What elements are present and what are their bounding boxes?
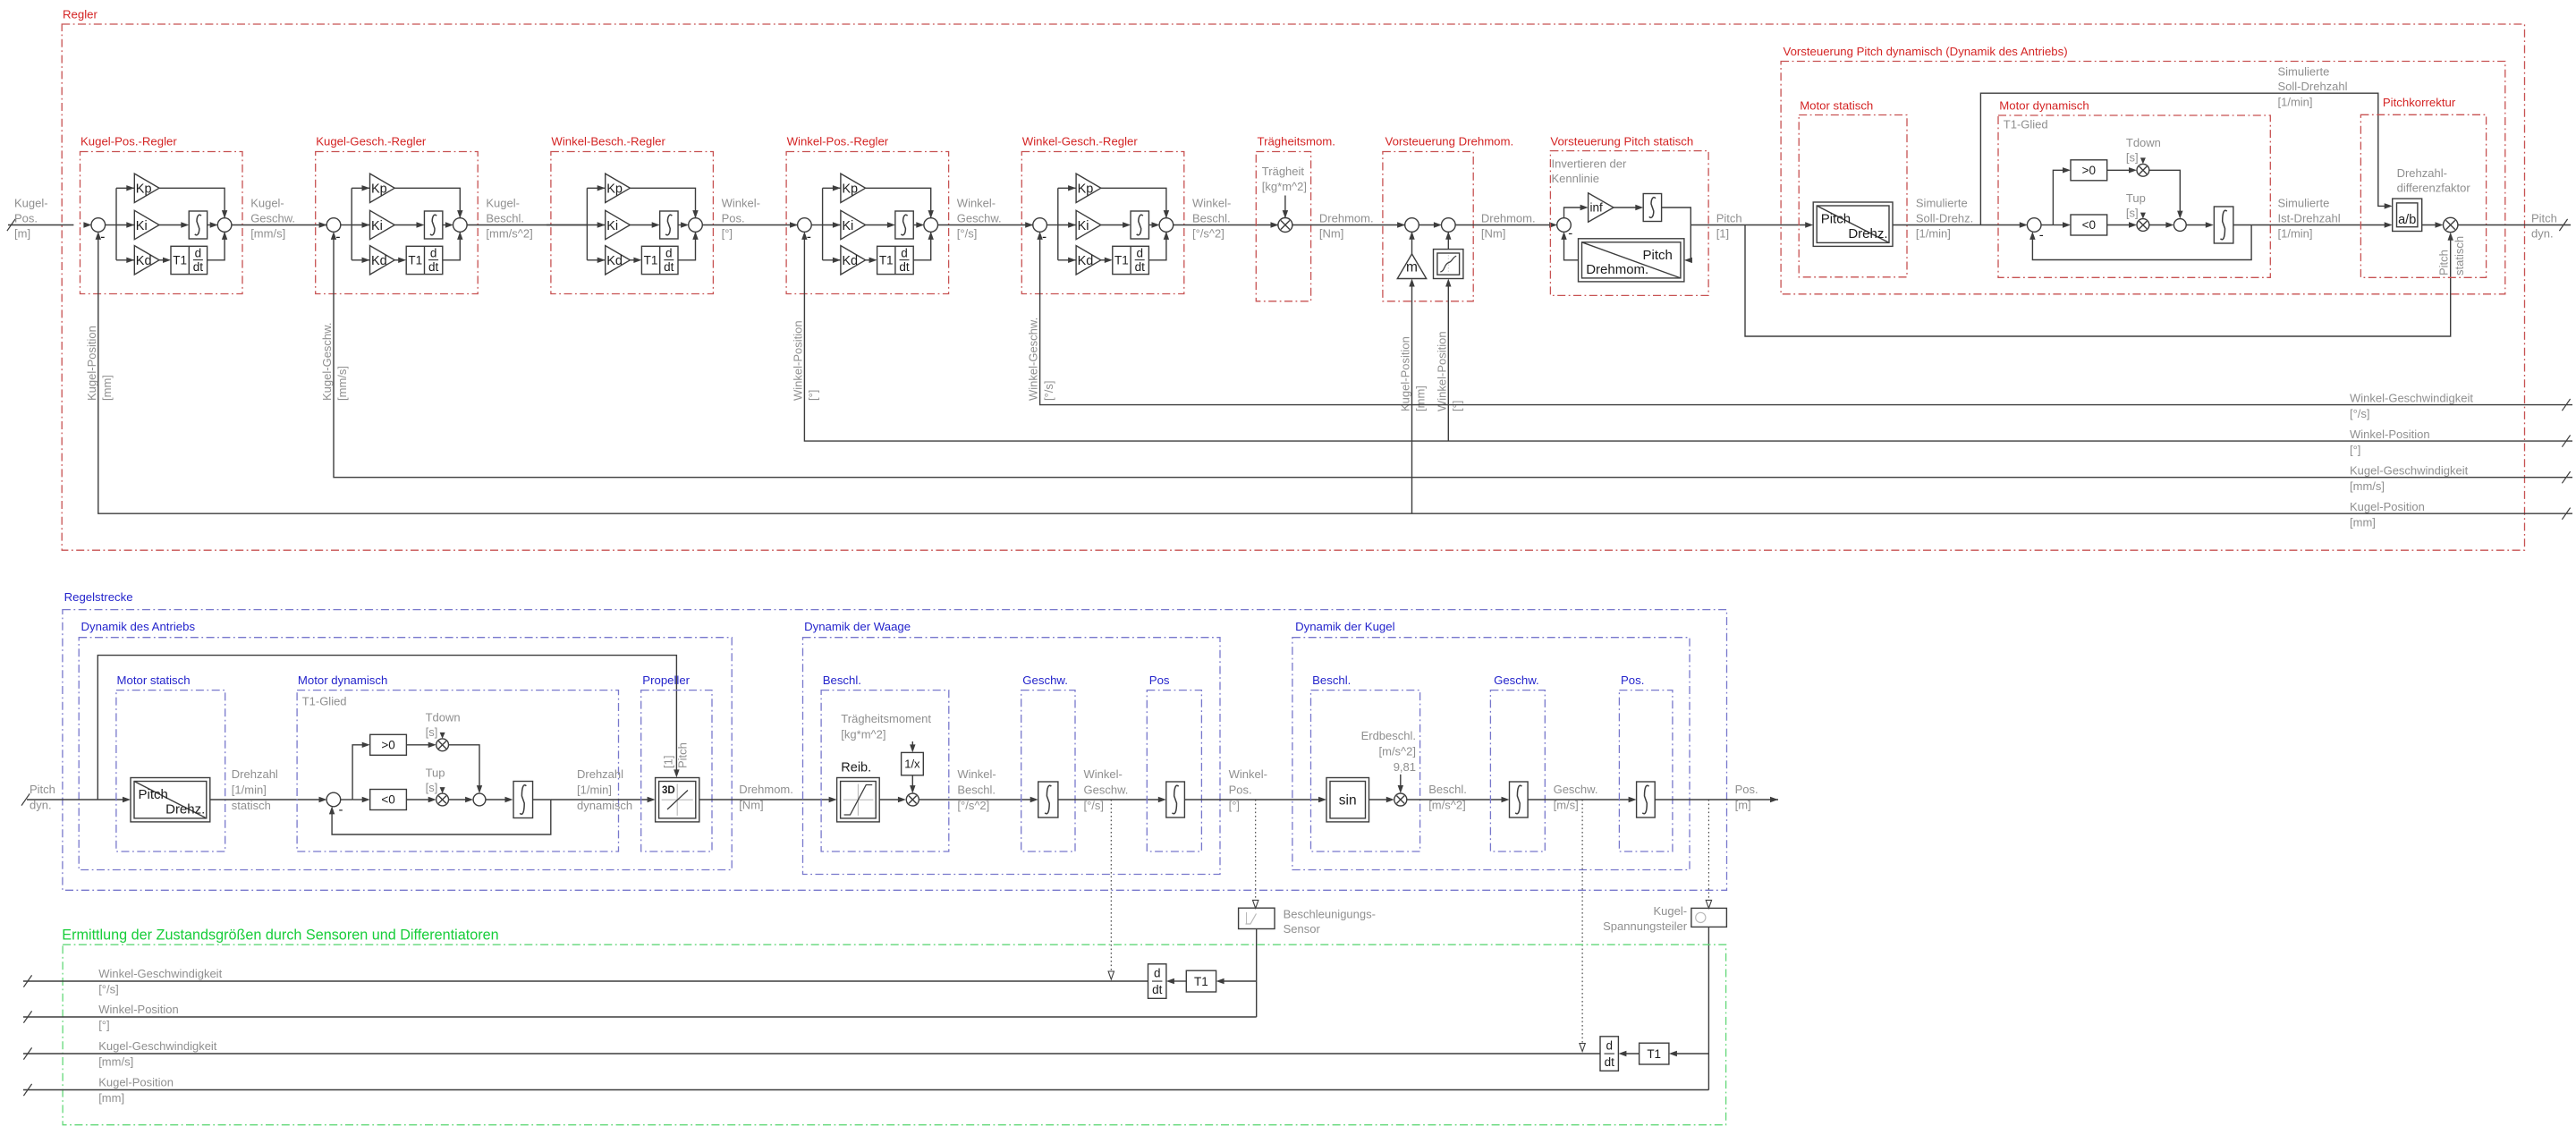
svg-text:Kugel-Geschwindigkeit: Kugel-Geschwindigkeit <box>2350 464 2469 478</box>
svg-text:[1]: [1] <box>1716 227 1729 241</box>
svg-text:[1/min]: [1/min] <box>232 783 267 797</box>
svg-text:-: - <box>335 229 340 244</box>
svg-text:Ki: Ki <box>606 219 618 233</box>
svg-text:Motor dynamisch: Motor dynamisch <box>1999 98 2089 112</box>
T1-Glied block >0 <box>2071 160 2107 181</box>
svg-text:Pitch: Pitch <box>2437 250 2451 275</box>
Winkel-Gesch.-Regler: output sum junction <box>1159 218 1174 233</box>
wire multiplier to Kugel Geschw. integrator <box>1407 799 1503 800</box>
svg-text:9,81: 9,81 <box>1394 760 1416 774</box>
svg-text:T1: T1 <box>408 254 422 267</box>
svg-text:Geschw.: Geschw. <box>1084 783 1129 797</box>
svg-text:Winkel-Pos.-Regler: Winkel-Pos.-Regler <box>787 134 889 148</box>
T1-Glied wire to block <0 <box>2053 224 2063 226</box>
multiplier Traegheitsmoment <box>1278 218 1292 233</box>
svg-text:Winkel-: Winkel- <box>957 197 996 210</box>
svg-text:Geschw.: Geschw. <box>1494 673 1539 687</box>
feedback wire Kugel-Geschwindigkeit [mm/s] <box>334 238 2572 477</box>
Winkel-Gesch.-Regler: derivative block T1 d/dt <box>1101 259 1106 261</box>
Winkel-Besch.-Regler: integrator <box>630 224 653 226</box>
svg-text:T1: T1 <box>879 254 894 267</box>
Winkel-Besch.-Regler: branch wires <box>586 188 588 259</box>
svg-text:sin: sin <box>1339 793 1357 809</box>
state wire Kugel-Position [mm] <box>23 1089 1708 1091</box>
svg-text:d: d <box>1606 1038 1613 1052</box>
wire Tup to multiplier <box>440 787 445 793</box>
multiplier Waage Beschl. <box>906 793 919 806</box>
dotted measurement tap Winkel-Position <box>1255 800 1257 901</box>
svg-text:[1/min]: [1/min] <box>577 783 612 797</box>
Ermittlung der Zustandsgroessen dashed box <box>63 944 1726 1125</box>
wire merge sum to integrator <box>2186 224 2207 226</box>
svg-text:[°/s]: [°/s] <box>1084 799 1105 812</box>
Kugel-Gesch.-Regler: wire Kp to output sum <box>394 188 460 218</box>
output wire Pos. [m] <box>1655 799 1778 800</box>
wire Propeller to Dynamik der Waage <box>699 799 830 800</box>
svg-text:[mm/s]: [mm/s] <box>98 1055 133 1069</box>
svg-text:Motor dynamisch: Motor dynamisch <box>298 673 387 687</box>
svg-text:-: - <box>807 229 811 244</box>
Winkel-Pos.-Regler: gain Ki <box>823 224 841 226</box>
wire integrator to output and Pitch node <box>1662 208 1691 260</box>
T1-Glied integrator <box>2214 207 2233 243</box>
T1-Glied multiplier Tdown <box>436 739 449 751</box>
Kugel-Gesch.-Regler: gain Ki <box>352 224 369 226</box>
sum junction inversion loop <box>1557 218 1572 233</box>
Winkel-Pos.-Regler: integrator <box>866 224 889 226</box>
svg-text:Kugel-Geschw.: Kugel-Geschw. <box>320 323 334 401</box>
svg-text:T1: T1 <box>1647 1047 1661 1061</box>
dotted measurement tap Kugel-Geschwindigkeit <box>1581 800 1583 1044</box>
Kugel-Gesch.-Regler: gain Kd <box>362 258 370 263</box>
wire Motor statisch to Motor dynamisch (Strecke) <box>210 799 320 800</box>
Kugel-Pos.-Regler: gain Ki <box>116 224 134 226</box>
multiplier Pitchkorrektur <box>2444 217 2458 232</box>
svg-text:[mm]: [mm] <box>100 375 114 401</box>
Winkel-Gesch.-Regler: integrator <box>1101 224 1124 226</box>
wire Tup to multiplier <box>2140 213 2146 219</box>
Winkel-Besch.-Regler: gain Ki <box>587 224 605 226</box>
integrator inversion loop <box>1643 194 1661 222</box>
Winkel-Pos.-Regler: gain Kd <box>833 258 841 263</box>
Regler outer dashed box <box>62 24 2524 550</box>
svg-text:3D: 3D <box>662 785 675 796</box>
Winkel-Gesch.-Regler: wire sum to branch <box>1046 224 1058 226</box>
svg-text:[mm]: [mm] <box>98 1091 124 1105</box>
svg-text:[mm/s]: [mm/s] <box>2350 479 2385 493</box>
svg-text:Ermittlung der Zustandsgrößen: Ermittlung der Zustandsgrößen durch Sens… <box>62 927 498 943</box>
svg-text:Winkel-Position: Winkel-Position <box>2350 428 2430 441</box>
svg-text:Winkel-: Winkel- <box>957 767 996 781</box>
wire T1 to d/dt (Winkel) <box>1173 980 1186 982</box>
Winkel-Pos.-Regler: branch wires <box>822 188 824 259</box>
Pitchkorrektur dashed box <box>2360 114 2486 277</box>
Winkel-Pos.-Regler: gain Kp <box>833 185 841 191</box>
svg-text:d: d <box>1154 966 1161 979</box>
Pitch bypass wire to Propeller <box>97 656 676 800</box>
wire Traegheitsmoment to 1/x <box>911 741 913 746</box>
svg-text:d: d <box>665 246 673 259</box>
wire gain inf to integrator <box>1614 207 1637 208</box>
Kugel-Gesch.-Regler: output sum junction <box>453 218 468 233</box>
svg-text:Ki: Ki <box>842 219 853 233</box>
wire sensor output down <box>1256 929 1258 1018</box>
wire Spannungsteiler output down <box>1707 927 1709 1089</box>
svg-text:T1: T1 <box>173 254 187 267</box>
differentiator d/dt (Winkel) <box>1148 964 1166 999</box>
Kugel-Gesch.-Regler: input sum junction <box>319 222 327 227</box>
svg-text:[1/min]: [1/min] <box>2278 227 2313 241</box>
Motor statisch (Strecke) dashed box <box>116 690 225 851</box>
gain inf <box>1589 193 1614 222</box>
svg-text:Beschl.: Beschl. <box>1192 212 1231 225</box>
wire Kugel-Pos.-Regler to Kugel-Gesch.-Regler <box>232 224 327 226</box>
svg-text:[m]: [m] <box>14 227 30 241</box>
wire Kugel Geschw. to Kugel Pos. <box>1528 799 1630 800</box>
Winkel-Gesch.-Regler: wire integrator to output sum <box>1148 224 1153 226</box>
svg-text:-: - <box>2039 228 2044 243</box>
svg-text:Ki: Ki <box>136 219 148 233</box>
svg-text:Beschleunigungs-: Beschleunigungs- <box>1284 908 1376 921</box>
feedback wire Winkel-Position [°] <box>804 238 2572 441</box>
svg-text:Kp: Kp <box>606 182 623 197</box>
svg-text:Kugel-Pos.-Regler: Kugel-Pos.-Regler <box>80 134 177 148</box>
svg-text:Pitch: Pitch <box>1716 212 1742 225</box>
T1-Glied multiplier Tup <box>436 793 449 806</box>
Winkel-Besch.-Regler: derivative block T1 d/dt <box>630 259 635 261</box>
wire Winkel-Position to saturation <box>1447 284 1449 441</box>
Winkel-Gesch.-Regler: wire Kp to output sum <box>1101 188 1166 218</box>
svg-text:Kennlinie: Kennlinie <box>1552 172 1600 185</box>
wire Kugel-Position to gain m <box>1411 284 1413 513</box>
dotted measurement tap Winkel-Geschwindigkeit <box>1110 800 1112 972</box>
svg-text:<0: <0 <box>2082 218 2096 232</box>
Motor dynamisch (Regler) dashed box <box>1998 115 2270 277</box>
Winkel-Gesch.-Regler: gain Kd <box>1068 258 1076 263</box>
T1-Glied input sum junction <box>2027 218 2041 233</box>
Kugel-Gesch.-Regler: wire derivative to output sum <box>443 232 461 260</box>
svg-text:Winkel-: Winkel- <box>1192 197 1231 210</box>
Kugel-Pos.-Regler: derivative block T1 d/dt <box>159 259 165 261</box>
svg-text:Kp: Kp <box>842 182 858 197</box>
wire Tdown to multiplier <box>2140 157 2146 164</box>
svg-text:[1/min]: [1/min] <box>1916 227 1951 241</box>
Winkel-Pos.-Regler: wire sum to branch <box>811 224 823 226</box>
svg-text:Drehmom.: Drehmom. <box>739 783 793 796</box>
svg-text:[mm]: [mm] <box>1414 385 1428 411</box>
Kugel-Pos.-Regler: wire Kp to output sum <box>159 188 225 218</box>
svg-text:dynamisch: dynamisch <box>577 799 632 812</box>
Waage Geschw. dashed box <box>1021 690 1075 851</box>
Vorsteuerung Drehmom. dashed box <box>1383 152 1473 301</box>
svg-text:Kd: Kd <box>1078 254 1094 268</box>
Propeller 3D lookup block <box>656 778 699 822</box>
svg-text:[m/s]: [m/s] <box>1554 798 1579 811</box>
Kugel-Pos.-Regler: input sum junction <box>83 222 91 227</box>
svg-text:T1: T1 <box>1114 254 1129 267</box>
svg-text:Regler: Regler <box>63 7 97 21</box>
Dynamik der Kugel dashed box <box>1292 638 1690 870</box>
svg-text:[mm/s]: [mm/s] <box>335 366 349 401</box>
sum junction B (saturation feedforward) <box>1442 218 1456 233</box>
Waage Beschl. dashed box <box>821 690 949 851</box>
T1-Glied branch wires <box>2041 224 2054 226</box>
svg-text:[°/s^2]: [°/s^2] <box>957 799 989 812</box>
T1-Glied block <0 <box>370 790 407 810</box>
wire sum up to gain inf <box>1564 208 1582 218</box>
Propeller dashed box <box>641 690 712 851</box>
Kugel-Pos.-Regler: wire derivative to output sum <box>208 232 225 260</box>
svg-text:Trägheitsmoment: Trägheitsmoment <box>841 712 931 725</box>
svg-text:dt: dt <box>899 260 910 274</box>
svg-text:Kugel-: Kugel- <box>250 197 284 210</box>
svg-text:Dynamik der Waage: Dynamik der Waage <box>804 620 911 633</box>
svg-text:Winkel-Besch.-Regler: Winkel-Besch.-Regler <box>551 134 665 148</box>
svg-text:[°/s]: [°/s] <box>1042 380 1055 401</box>
svg-text:[mm/s]: [mm/s] <box>250 227 285 241</box>
T1-Glied wire >0 to multiplier <box>406 744 429 746</box>
svg-text:Motor statisch: Motor statisch <box>117 673 191 687</box>
svg-text:Tdown: Tdown <box>426 711 461 724</box>
wire Winkel-Besch.-Regler to Winkel-Pos.-Regler <box>702 224 798 226</box>
svg-text:Kugel-Position: Kugel-Position <box>1399 336 1412 411</box>
svg-text:Drehzahl: Drehzahl <box>232 767 278 781</box>
svg-text:Beschl.: Beschl. <box>957 783 996 797</box>
svg-text:[kg*m^2]: [kg*m^2] <box>841 728 885 741</box>
svg-text:[°/s]: [°/s] <box>98 983 119 996</box>
filter T1 (Kugel) <box>1640 1043 1669 1064</box>
svg-text:Soll-Drehz.: Soll-Drehz. <box>1916 212 1973 225</box>
Kugel Beschl. dashed box <box>1311 690 1420 851</box>
Regelstrecke dashed box <box>63 610 1727 891</box>
svg-text:T1-Glied: T1-Glied <box>2004 118 2048 131</box>
Kugel-Pos.-Regler: wire integrator to output sum <box>208 224 212 226</box>
svg-text:[°/s]: [°/s] <box>957 227 978 241</box>
svg-text:d: d <box>1136 246 1143 259</box>
divide block a/b <box>2393 199 2422 231</box>
svg-text:a/b: a/b <box>2398 213 2416 227</box>
sum junction A (mass feedforward) <box>1405 218 1419 233</box>
svg-text:T1: T1 <box>644 254 658 267</box>
Motor statisch (Regler) dashed box <box>1799 115 1907 277</box>
svg-text:Winkel-: Winkel- <box>1084 767 1123 781</box>
wire Reib. to multiplier <box>879 799 899 800</box>
Beschleunigungs-Sensor block <box>1239 908 1275 928</box>
sin block <box>1326 778 1369 822</box>
svg-text:Pitch: Pitch <box>1643 248 1673 263</box>
svg-text:differenzfaktor: differenzfaktor <box>2397 181 2471 194</box>
svg-text:Kp: Kp <box>136 182 152 197</box>
Kugel Geschw. dashed box <box>1490 690 1545 851</box>
Kugel-Gesch.-Regler: gain Kp <box>362 185 370 191</box>
svg-text:[m/s^2]: [m/s^2] <box>1428 798 1466 811</box>
svg-text:statisch: statisch <box>2453 236 2466 275</box>
T1-Glied multiplier Tdown <box>2137 164 2149 176</box>
feedback wire Kugel-Position [mm] <box>98 238 2572 513</box>
svg-text:Pitch: Pitch <box>139 787 168 802</box>
svg-text:Winkel-Position: Winkel-Position <box>98 1003 179 1016</box>
svg-text:Vorsteuerung Pitch dynamisch (: Vorsteuerung Pitch dynamisch (Dynamik de… <box>1784 45 2068 58</box>
svg-text:Drehzahl: Drehzahl <box>577 767 623 781</box>
svg-text:d: d <box>430 246 437 259</box>
svg-text:Beschl.: Beschl. <box>486 212 524 225</box>
svg-text:Winkel-Geschwindigkeit: Winkel-Geschwindigkeit <box>98 967 222 980</box>
wire multiplier Tup to merge sum <box>449 799 467 800</box>
svg-text:Vorsteuerung Drehmom.: Vorsteuerung Drehmom. <box>1385 134 1514 148</box>
svg-text:Winkel-: Winkel- <box>722 197 760 210</box>
svg-text:<0: <0 <box>381 793 394 807</box>
svg-text:T1-Glied: T1-Glied <box>302 694 347 707</box>
svg-text:[s]: [s] <box>426 725 438 739</box>
svg-text:Geschw.: Geschw. <box>250 212 295 225</box>
svg-text:Winkel-Position: Winkel-Position <box>1435 331 1448 411</box>
svg-text:Beschl.: Beschl. <box>1428 783 1467 796</box>
svg-text:Simulierte: Simulierte <box>1916 197 1968 210</box>
Winkel-Besch.-Regler: output sum junction <box>689 218 703 233</box>
Vorsteuerung Pitch dynamisch dashed box <box>1781 62 2505 294</box>
svg-text:[°]: [°] <box>98 1019 109 1032</box>
multiplier Kugel Beschl. <box>1394 793 1407 806</box>
svg-text:Tup: Tup <box>426 767 445 780</box>
Vorsteuerung Pitch statisch dashed box <box>1550 151 1708 296</box>
svg-text:Kd: Kd <box>842 254 858 268</box>
svg-text:Invertieren der: Invertieren der <box>1552 157 1627 171</box>
wire Winkel-Pos.-Regler to Winkel-Gesch.-Regler <box>937 224 1033 226</box>
wire to lookup Pitch-Drehmom. <box>1690 259 1691 261</box>
differentiator d/dt (Kugel) <box>1600 1037 1618 1071</box>
svg-text:Ki: Ki <box>371 219 383 233</box>
lookup table Pitch over Drehmom. <box>1579 239 1684 282</box>
Kugel-Pos.-Regler: integrator <box>159 224 182 226</box>
Winkel-Besch.-Regler: wire integrator to output sum <box>678 224 682 226</box>
output wire Pitch dyn. <box>2458 224 2571 226</box>
Dynamik der Waage dashed box <box>803 638 1221 875</box>
wire multiplier Tdown to merge sum <box>2149 170 2181 212</box>
wire merge sum to integrator <box>486 799 507 800</box>
wire Motor statisch to Motor dynamisch sum <box>1893 224 2021 226</box>
svg-text:[°]: [°] <box>1229 799 1240 812</box>
Kugel-Pos.-Regler: wire sum to branch <box>105 224 116 226</box>
svg-text:d: d <box>195 246 202 259</box>
svg-text:Pos.: Pos. <box>14 212 38 225</box>
wire sum A to sum B <box>1419 224 1436 226</box>
svg-text:[°]: [°] <box>2350 444 2360 457</box>
svg-text:-: - <box>1042 229 1046 244</box>
T1-Glied input sum junction <box>326 792 341 807</box>
Kugel-Gesch.-Regler: derivative block T1 d/dt <box>394 259 400 261</box>
svg-text:Pitch: Pitch <box>30 783 55 796</box>
svg-text:Kd: Kd <box>136 254 152 268</box>
T1-Glied integrator <box>513 782 533 818</box>
T1-Glied branch wires <box>340 799 352 800</box>
Winkel-Gesch.-Regler: input sum junction <box>1025 222 1033 227</box>
wire gain m to sum A <box>1411 232 1413 254</box>
svg-text:statisch: statisch <box>232 799 271 812</box>
wire Erdbeschl. to multiplier <box>1400 775 1402 787</box>
Kugel-Gesch.-Regler: integrator <box>394 224 418 226</box>
Winkel-Pos.-Regler: output sum junction <box>924 218 938 233</box>
wire sensor to T1 (Winkel) <box>1223 980 1257 982</box>
Winkel-Besch.-Regler: wire derivative to output sum <box>678 232 696 260</box>
svg-text:Pos.: Pos. <box>722 212 745 225</box>
T1-Glied wire to block <0 <box>352 799 363 800</box>
svg-text:dt: dt <box>193 260 204 274</box>
svg-text:[°]: [°] <box>1451 401 1464 411</box>
Kugel-Spannungsteiler block <box>1691 908 1727 927</box>
svg-text:Dynamik des Antriebs: Dynamik des Antriebs <box>81 620 196 633</box>
Winkel-Pos.-Regler: wire integrator to output sum <box>913 224 918 226</box>
svg-text:-: - <box>339 802 343 817</box>
svg-text:[°/s^2]: [°/s^2] <box>1192 227 1224 241</box>
wire 1/x to multiplier <box>911 775 913 787</box>
Winkel-Pos.-Regler: wire Kp to output sum <box>866 188 931 218</box>
Dynamik des Antriebs dashed box <box>79 638 732 870</box>
wire multiplier to Waage Geschw. integrator <box>919 799 1031 800</box>
lookup table Pitch over Drehz. <box>1813 202 1893 246</box>
Kugel-Pos.-Regler: branch wires <box>115 188 117 259</box>
svg-text:Simulierte: Simulierte <box>2278 64 2330 78</box>
wire Kugel-Gesch.-Regler to Winkel-Besch.-Regler <box>467 224 588 226</box>
svg-text:Drehmom.: Drehmom. <box>1481 212 1536 225</box>
svg-text:Simulierte: Simulierte <box>2278 197 2330 210</box>
Kugel-Gesch.-Regler: wire integrator to output sum <box>443 224 447 226</box>
Winkel-Gesch.-Regler: gain Kp <box>1068 185 1076 191</box>
svg-text:Drehmom.: Drehmom. <box>1319 212 1374 225</box>
svg-text:[mm]: [mm] <box>2350 516 2376 529</box>
svg-text:-: - <box>100 229 105 244</box>
svg-text:[1/min]: [1/min] <box>2278 95 2313 108</box>
Winkel-Gesch.-Regler: wire derivative to output sum <box>1148 232 1166 260</box>
svg-text:[s]: [s] <box>2126 206 2139 219</box>
Kugel-Pos.-Regler: gain Kd <box>126 258 134 263</box>
input port Kugel-Pos. <box>8 224 73 226</box>
svg-text:Kugel-Gesch.-Regler: Kugel-Gesch.-Regler <box>316 134 427 148</box>
svg-text:Pos.: Pos. <box>1621 673 1644 687</box>
input port Pitch dyn. <box>27 799 124 800</box>
T1-Glied block >0 <box>370 734 407 755</box>
Reib. saturation block <box>837 778 880 822</box>
svg-text:Pitch: Pitch <box>1821 212 1851 227</box>
svg-text:Drehzahl-: Drehzahl- <box>2397 166 2447 180</box>
Winkel-Besch.-Regler: gain Kd <box>597 258 606 263</box>
wire sin to multiplier <box>1369 799 1388 800</box>
svg-text:m: m <box>1406 260 1418 275</box>
wire Vorsteuerung Drehmom. to Vorsteuerung Pitch statisch <box>1455 224 1551 226</box>
T1-Glied output wire <box>2233 224 2251 226</box>
svg-text:Motor statisch: Motor statisch <box>1800 98 1873 112</box>
svg-text:Kugel-Position: Kugel-Position <box>85 326 98 401</box>
T1-Glied feedback wire <box>332 800 551 834</box>
Kugel-Gesch.-Regler: branch wires <box>351 188 352 259</box>
dotted measurement tap Kugel-Position <box>1707 800 1709 901</box>
svg-text:Kugel-Geschwindigkeit: Kugel-Geschwindigkeit <box>98 1039 217 1053</box>
T1-Glied merge sum junction <box>473 793 486 806</box>
Kugel-Gesch.-Regler: wire sum to branch <box>340 224 352 226</box>
lookup table Pitch over Drehz. (Strecke) <box>131 778 210 822</box>
svg-text:Trägheit: Trägheit <box>1262 165 1305 178</box>
controller block Kugel-Pos.-Regler: dashed boundary <box>80 152 243 294</box>
Winkel-Gesch.-Regler: gain Ki <box>1058 224 1076 226</box>
svg-text:Tdown: Tdown <box>2126 136 2161 149</box>
wire Pitch statisch output to Motor statisch <box>1690 224 1807 226</box>
svg-text:Kp: Kp <box>1078 182 1094 197</box>
Kugel-Pos.-Regler: output sum junction <box>217 218 232 233</box>
wire Simulierte Soll-Drehzahl riser to a/b <box>1980 93 2385 224</box>
Waage Geschw. integrator <box>1038 782 1058 817</box>
wire Tdown to multiplier <box>440 733 445 739</box>
svg-text:Pos.: Pos. <box>1229 783 1252 797</box>
svg-text:[1]: [1] <box>662 756 675 768</box>
